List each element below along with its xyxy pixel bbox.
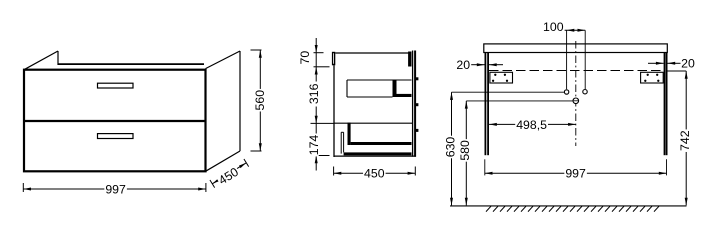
svg-text:20: 20 [456, 58, 470, 72]
side view: cabinet top edge [335, 52, 410, 54]
rear view: centre line (dash-dot) [575, 41, 577, 146]
side view: cabinet bottom panel (thick) [344, 152, 412, 155]
svg-text:498,5: 498,5 [516, 118, 547, 132]
rear view: left fixing hole [564, 90, 568, 94]
rear view: mounting height dashed line [489, 70, 664, 72]
svg-text:174: 174 [307, 135, 321, 156]
side view: fitting knob top [416, 77, 419, 80]
dimension 450 depth (front view, oblique) [210, 159, 249, 188]
side view: upper drawer box profile [347, 80, 412, 97]
side view: cabinet front edge [333, 65, 335, 157]
rear view: left side panel (double line) [485, 53, 488, 156]
svg-text:450: 450 [364, 167, 385, 181]
front view: back panel top edge [58, 63, 204, 65]
dimension 450 depth (side view) [334, 167, 416, 181]
dimension chain line (side view left) [311, 38, 335, 171]
side view: left (front) wall bracket [332, 52, 335, 66]
dimension 316 (side view) [307, 83, 321, 106]
rear view: left mounting bracket with screw holes [490, 72, 513, 83]
floor hatching [486, 206, 659, 211]
svg-text:997: 997 [565, 167, 586, 181]
svg-text:560: 560 [253, 90, 267, 111]
svg-text:742: 742 [678, 130, 692, 151]
side view: fitting knob middle [416, 103, 419, 106]
side view: lower drawer box profile [341, 123, 411, 154]
rear view: siphon/drain hole with centre mark [573, 98, 579, 104]
front view: upper drawer handle [98, 83, 134, 88]
front view: drawer divider line [24, 120, 206, 122]
dimension 630 fixing hole height (rear view) [443, 92, 564, 205]
side view: rail/shelf line between drawers [334, 122, 412, 124]
svg-text:70: 70 [298, 51, 312, 65]
front view: cabinet carcass front panel outline [24, 70, 206, 172]
floor line [450, 205, 687, 207]
side view: fitting knob bottom [416, 129, 419, 132]
dimension 100 tap hole spacing (rear view) [543, 20, 585, 89]
dimension 20 left panel thickness (rear view) [456, 58, 503, 72]
front view: left side panel top edge (oblique) [24, 51, 58, 70]
front view: right side panel bottom edge (oblique) [206, 151, 241, 171]
rear view: right mounting bracket with screw holes [641, 72, 664, 83]
dimension 997 width (rear view) [485, 159, 667, 180]
svg-text:20: 20 [681, 57, 695, 71]
side view: cabinet bottom outer line [334, 155, 416, 157]
dimension 70 (side view) [298, 51, 312, 65]
front view: right side panel top edge (oblique) [206, 51, 241, 69]
side view: right (back) wall bracket [408, 52, 411, 67]
dimension 560 height (front view) [251, 50, 268, 151]
dimension 174 (side view) [307, 134, 321, 157]
dimension 20 right panel thickness (rear view) [648, 57, 695, 71]
rear view: right side panel (double line) [665, 53, 667, 156]
dimension 498,5 drain offset (rear view) [489, 118, 576, 132]
dimension 580 drain height (rear view) [458, 101, 573, 205]
svg-text:630: 630 [443, 137, 457, 158]
svg-text:316: 316 [307, 83, 321, 104]
dimension 997 width (front view) [23, 183, 206, 197]
rear view: worktop/top rail [484, 44, 668, 53]
svg-text:580: 580 [458, 140, 472, 161]
front view: left side panel back corner edge [57, 51, 59, 65]
front view: right side panel back vertical edge [239, 51, 241, 151]
dimension 742 overall height (rear view) [668, 71, 692, 205]
svg-text:100: 100 [543, 20, 564, 34]
front view: lower drawer handle [98, 134, 134, 139]
rear view: right fixing hole [583, 90, 587, 94]
side view: back panel (double dark line) [413, 51, 416, 157]
svg-text:997: 997 [105, 183, 126, 197]
